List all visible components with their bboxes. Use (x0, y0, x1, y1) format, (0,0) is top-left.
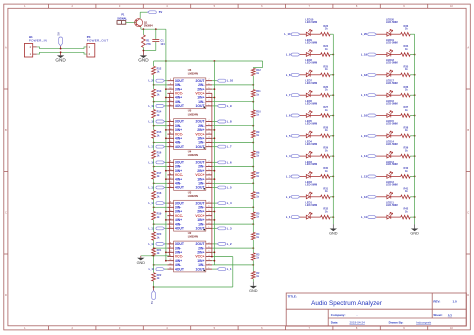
svg-text:2N3904: 2N3904 (144, 24, 153, 27)
svg-text:Audio Spectrum Analyzer: Audio Spectrum Analyzer (311, 300, 382, 307)
svg-text:5V: 5V (150, 301, 154, 304)
resistor R38 1k (401, 134, 411, 138)
svg-text:L_3: L_3 (286, 174, 291, 178)
node power ground junction (60, 51, 62, 53)
wire R32 to bus (330, 216, 333, 218)
svg-text:POWER_OUT: POWER_OUT (87, 38, 109, 42)
svg-text:L_19: L_19 (361, 53, 368, 57)
LED LED4 LED-5MM (306, 154, 310, 158)
node signal U4 2IN+ (214, 170, 216, 172)
net flag L_14 LED column (368, 155, 377, 158)
wire LED20 to R33 (391, 33, 401, 35)
wire U5 4IN- tap (154, 142, 168, 144)
net flag L_12 at U2 3OUT (156, 243, 165, 246)
wire LED15 to R38 (391, 135, 401, 137)
svg-text:D: D (5, 293, 7, 297)
svg-text:GND: GND (55, 58, 66, 63)
resistor R23 1k (321, 32, 331, 36)
svg-text:3: 3 (209, 259, 210, 261)
wire U2 2IN- to ref ladder (212, 247, 253, 249)
net flag L_11 LED column (368, 216, 377, 219)
wire U2 2IN+ signal (212, 251, 214, 253)
svg-text:L_5: L_5 (227, 186, 232, 190)
wire U5 3IN+ signal (166, 129, 168, 131)
wire bottom VCC connect (154, 286, 233, 288)
LED LED15 LED-5MM (387, 134, 391, 138)
net flag L_11 at U2 4OUT (156, 268, 165, 271)
svg-text:LED-5MM: LED-5MM (386, 142, 398, 146)
wire flag to LED14 (376, 155, 387, 157)
node LED bus junction (414, 155, 416, 157)
svg-text:5: 5 (209, 210, 210, 212)
wire U6 1OUT to flag (212, 105, 217, 107)
svg-text:2: 2 (209, 141, 210, 143)
node ladder tap U3 upper (153, 206, 155, 208)
node signal U3 2IN+ (214, 211, 216, 213)
svg-text:GND: GND (137, 261, 146, 265)
ground GND at ladder bottom left (141, 255, 170, 257)
svg-text:13: 13 (170, 263, 172, 265)
svg-text:L_5: L_5 (286, 134, 291, 138)
transistor Q1 2N3904 (135, 19, 143, 27)
net flag L_7 at U5 1OUT (217, 145, 226, 148)
svg-text:L_7: L_7 (286, 93, 291, 97)
wire U5 1IN+ signal (212, 137, 214, 139)
svg-text:9: 9 (170, 165, 171, 167)
wire U3 3IN- tap (154, 206, 168, 208)
net flag L_7 LED column (291, 94, 300, 97)
net flag L_6 at U4 2OUT (217, 161, 226, 164)
svg-text:8: 8 (170, 79, 171, 81)
wire U6 2IN+ signal (212, 88, 214, 90)
svg-text:7: 7 (209, 120, 210, 122)
svg-text:4: 4 (209, 133, 210, 135)
svg-text:4OUT: 4OUT (175, 104, 185, 108)
wire flag to LED16 (376, 115, 387, 117)
wire U5 2IN+ signal (212, 129, 214, 131)
wire U3 1OUT to flag (212, 227, 217, 229)
node LED bus junction (414, 216, 416, 218)
svg-text:U2: U2 (188, 231, 192, 235)
node ref ladder tap U4 lower (252, 182, 254, 184)
svg-text:Drawn By:: Drawn By: (389, 321, 404, 325)
resistor R28 1k (321, 134, 331, 138)
wire U2 2OUT to flag (212, 243, 217, 245)
svg-text:2: 2 (209, 263, 210, 265)
node signal U3 1IN+ (214, 219, 216, 221)
svg-text:LED-5MM: LED-5MM (305, 183, 317, 187)
resistor R14 1k (153, 102, 155, 110)
wire U6 2OUT to flag (212, 80, 217, 82)
node LED bus junction (414, 176, 416, 178)
svg-text:12: 12 (170, 259, 172, 261)
LED LED14 LED-5MM (387, 154, 391, 158)
svg-text:LED-5MM: LED-5MM (386, 61, 398, 65)
svg-text:L_12: L_12 (361, 195, 368, 199)
wire R30 to bus (330, 175, 333, 177)
svg-text:SIGNAL: SIGNAL (117, 16, 127, 20)
svg-text:GND: GND (249, 289, 258, 293)
svg-text:L_4: L_4 (227, 201, 232, 205)
node ladder tap U2 lower (153, 264, 155, 266)
svg-text:LED-5MM: LED-5MM (386, 40, 398, 44)
net flag L_2 at U2 2OUT (217, 243, 226, 246)
net flag L_13 LED column (368, 175, 377, 178)
node LED bus junction (332, 176, 334, 178)
wire U2 4IN+ signal (166, 260, 168, 262)
node LED bus junction (414, 74, 416, 76)
wire U5 2OUT to flag (212, 121, 217, 123)
net flag L_6 LED column (291, 114, 300, 117)
resistor R6 1k (ref ladder) (252, 179, 254, 192)
svg-text:1/1: 1/1 (448, 313, 453, 317)
node LED bus junction (414, 94, 416, 96)
wire R36 to bus (410, 94, 414, 96)
svg-text:Company:: Company: (331, 313, 346, 317)
node ref ladder tap U3 upper (252, 206, 254, 208)
node signal U2 4IN+ (165, 260, 167, 262)
wire U6 1IN- to ref ladder (212, 101, 253, 103)
wire U3 4IN+ signal (166, 219, 168, 221)
resistor R25 1k (321, 73, 331, 77)
wire U4 3IN+ signal (166, 170, 168, 172)
svg-text:L_6: L_6 (227, 160, 232, 164)
svg-text:L_9: L_9 (227, 104, 232, 108)
svg-text:TITLE:: TITLE: (288, 295, 297, 299)
node LED bus junction (332, 54, 334, 56)
net flag L_19 at U6 4OUT (156, 105, 165, 108)
svg-text:3: 3 (209, 96, 210, 98)
svg-text:14: 14 (170, 268, 172, 270)
svg-text:6: 6 (209, 83, 210, 85)
node LED bus junction (414, 196, 416, 198)
wire LED19 to R34 (391, 54, 401, 56)
wire U2 3IN- tap (154, 247, 168, 249)
svg-text:3: 3 (209, 218, 210, 220)
node LED bus junction (332, 216, 334, 218)
wire U4 2IN+ signal (212, 170, 214, 172)
svg-text:LM324N: LM324N (188, 112, 198, 116)
svg-text:D: D (467, 293, 469, 297)
net flag L_4 LED column (291, 155, 300, 158)
svg-text:27K: 27K (146, 42, 151, 46)
svg-text:U4: U4 (188, 150, 192, 154)
wire Q1 collector to 5V (139, 12, 141, 18)
wire R26 to bus (330, 94, 333, 96)
svg-text:7: 7 (209, 202, 210, 204)
net flag L_12 LED column (368, 195, 377, 198)
ground GND at LED column (411, 229, 418, 232)
node ladder tap U2 upper (153, 247, 155, 249)
wire U4 1IN- to ref ladder (212, 182, 253, 184)
svg-text:4: 4 (209, 255, 210, 257)
wire R38 to bus (410, 135, 414, 137)
net flag L_13 at U3 4OUT (156, 227, 165, 230)
wire R25 to bus (330, 74, 333, 76)
net flag L_19 LED column (368, 53, 377, 56)
svg-text:3: 3 (209, 178, 210, 180)
svg-text:4: 4 (209, 92, 210, 94)
svg-text:A: A (5, 46, 7, 50)
wire U3 2OUT to flag (212, 202, 217, 204)
wire LED3 to R30 (310, 175, 320, 177)
node LED bus junction (414, 135, 416, 137)
wire U5 4IN+ signal (166, 137, 168, 139)
svg-text:7: 7 (209, 242, 210, 244)
resistor R17 1k (153, 167, 155, 171)
svg-text:L_1: L_1 (286, 215, 291, 219)
node signal U4 3IN+ (165, 170, 167, 172)
connector H1 POWER_IN (24, 44, 32, 58)
resistor R32 1k (321, 215, 331, 219)
ground GND at power connector (60, 52, 62, 55)
resistor R9 1k (ref ladder) (252, 117, 254, 130)
capacitor C1 104 (155, 29, 157, 39)
svg-text:6: 6 (209, 124, 210, 126)
node LED bus junction (332, 74, 334, 76)
wire U3 2IN- to ref ladder (212, 206, 253, 208)
resistor R27 1k (321, 114, 331, 118)
svg-text:1: 1 (209, 227, 210, 229)
resistor R12 1k (153, 61, 155, 66)
node LED bus junction (414, 54, 416, 56)
net flag L_15 LED column (368, 134, 377, 137)
wire P1 to Q1 base (126, 21, 136, 23)
svg-text:Sheet:: Sheet: (433, 313, 442, 317)
node emitter-C1 junction (155, 28, 157, 30)
net flag L_4 at U3 2OUT (217, 202, 226, 205)
node signal bus top junction (165, 60, 167, 62)
svg-text:U6: U6 (188, 68, 192, 72)
net flag L_10 LED column (291, 33, 300, 36)
LED LED3 LED-5MM (306, 175, 310, 179)
LED LED7 LED-5MM (306, 93, 310, 97)
resistor R15 1k (153, 126, 155, 130)
node ladder bottom junction (153, 286, 155, 288)
node signal U5 3IN+ (165, 129, 167, 131)
svg-text:LED-5MM: LED-5MM (386, 81, 398, 85)
wire U6 1IN+ signal (212, 97, 214, 99)
wire R1-C1 bottom join (142, 47, 144, 50)
node ladder tap U5 lower (153, 142, 155, 144)
svg-text:L_13: L_13 (361, 174, 368, 178)
svg-text:LED-5MM: LED-5MM (386, 183, 398, 187)
net flag L_3 LED column (291, 175, 300, 178)
net flag L_15 at U4 4OUT (156, 186, 165, 189)
wire U2 1OUT to flag (212, 268, 217, 270)
svg-text:L_18: L_18 (361, 73, 368, 77)
node LED bus junction (332, 155, 334, 157)
node VCC+ bus bottom (211, 256, 213, 258)
svg-text:4OUT: 4OUT (175, 145, 185, 149)
wire power ground (37, 52, 87, 54)
wire U6 2IN- to ref ladder (212, 84, 253, 86)
node signal U2 1IN+ (214, 260, 216, 262)
LED LED6 LED-5MM (306, 114, 310, 118)
net flag L_16 LED column (368, 114, 377, 117)
wire flag to LED7 (300, 94, 306, 96)
svg-text:2019-04-24: 2019-04-24 (350, 321, 366, 325)
svg-text:6: 6 (209, 247, 210, 249)
wire LED2 to R31 (310, 196, 320, 198)
node ref ladder tap U3 lower (252, 223, 254, 225)
LED LED20 LED-5MM (387, 32, 391, 36)
wire U2 4IN- tap (154, 264, 168, 266)
svg-text:7: 7 (209, 161, 210, 163)
LED LED13 LED-5MM (387, 175, 391, 179)
wire U6 3IN- tap (154, 84, 168, 86)
wire flag to LED18 (376, 74, 387, 76)
svg-text:B: B (467, 128, 469, 132)
svg-text:GND: GND (410, 232, 419, 236)
node signal U5 2IN+ (214, 129, 216, 131)
net flag L_3 at U3 1OUT (217, 227, 226, 230)
svg-text:L_10: L_10 (227, 79, 234, 83)
svg-text:LM324N: LM324N (188, 153, 198, 157)
net flag L_18 at U5 3OUT (156, 120, 165, 123)
svg-text:8: 8 (170, 202, 171, 204)
wire U5 4OUT flag wire (165, 146, 168, 148)
svg-text:L_3: L_3 (227, 226, 232, 230)
wire flag to LED10 (300, 33, 306, 35)
wire LED18 to R35 (391, 74, 401, 76)
wire U6 4IN- tap (154, 101, 168, 103)
op-amp U3 LM324N (167, 190, 212, 231)
svg-text:7: 7 (209, 79, 210, 81)
svg-text:A: A (467, 46, 469, 50)
wire R29 to bus (330, 155, 333, 157)
title block (286, 293, 466, 326)
wire flag to LED13 (376, 175, 387, 177)
svg-text:L_17: L_17 (361, 93, 368, 97)
node ref ladder tap U6 upper (252, 84, 254, 86)
wire flag to LED17 (376, 94, 387, 96)
wire U4 2OUT to flag (212, 161, 217, 163)
wire U3 1IN+ signal (212, 219, 214, 221)
node LED bus junction (332, 94, 334, 96)
wire U4 1OUT to flag (212, 187, 217, 189)
wire U4 4IN- tap (154, 182, 168, 184)
svg-text:L_4: L_4 (286, 154, 291, 158)
wire R40 to bus (410, 175, 414, 177)
LED LED11 LED-5MM (387, 215, 391, 219)
LED LED17 LED-5MM (387, 93, 391, 97)
svg-text:C: C (467, 211, 469, 215)
svg-text:9: 9 (170, 247, 171, 249)
svg-text:Date:: Date: (331, 321, 339, 325)
svg-text:LED-5MM: LED-5MM (386, 101, 398, 105)
node ladder tap U6 upper (153, 84, 155, 86)
wire LED5 to R28 (310, 135, 320, 137)
LED LED5 LED-5MM (306, 134, 310, 138)
net flag L_8 LED column (291, 73, 300, 76)
wire flag to LED12 (376, 196, 387, 198)
wire LED9 to R24 (310, 54, 320, 56)
svg-text:U5: U5 (188, 109, 192, 113)
svg-text:1: 1 (209, 186, 210, 188)
resistor R12 1k (ref ladder) (252, 67, 254, 70)
svg-text:LED-5MM: LED-5MM (305, 20, 317, 24)
wire LED8 to R25 (310, 74, 320, 76)
svg-text:9: 9 (170, 206, 171, 208)
node ladder tap U6 lower (153, 101, 155, 103)
wire LED cathode bus (414, 34, 416, 224)
node ladder tap U5 upper (153, 125, 155, 127)
svg-text:4OUT: 4OUT (175, 227, 185, 231)
node ref ladder tap U5 lower (252, 142, 254, 144)
wire U5 3OUT flag wire (165, 121, 168, 123)
wire R24 to bus (330, 54, 333, 56)
svg-text:U3: U3 (188, 190, 192, 194)
node ladder tap U4 lower (153, 182, 155, 184)
net flag L_9 LED column (291, 53, 300, 56)
node signal U6 1IN+ (214, 97, 216, 99)
resistor R24 1k (321, 53, 331, 57)
wire flag to LED3 (300, 175, 306, 177)
svg-text:5: 5 (209, 169, 210, 171)
resistor R18 1k (153, 183, 155, 191)
wire LED4 to R29 (310, 155, 320, 157)
resistor R29 1k (321, 154, 331, 158)
node ref ladder tap U2 upper (252, 247, 254, 249)
wire U6 3OUT flag wire (165, 80, 168, 82)
svg-text:8: 8 (170, 120, 171, 122)
power flag 5V at Q1 collector (148, 11, 157, 14)
svg-text:B: B (5, 128, 7, 132)
connector P1 SIGNAL (117, 21, 126, 25)
resistor R21 1k (153, 247, 155, 249)
wire Q1 emitter (140, 27, 142, 29)
svg-text:LED-5MM: LED-5MM (305, 81, 317, 85)
ground GND at LED column (330, 229, 337, 232)
svg-text:5: 5 (209, 128, 210, 130)
power flag 5V bottom (153, 287, 155, 291)
svg-text:L_8: L_8 (227, 120, 232, 124)
wire LED12 to R41 (391, 196, 401, 198)
svg-text:4OUT: 4OUT (175, 267, 185, 271)
resistor R11 1k (ref ladder) (252, 76, 254, 90)
svg-text:L_8: L_8 (286, 73, 291, 77)
wire U3 4IN- tap (154, 223, 168, 225)
resistor R3 1k (ref ladder) (252, 240, 254, 253)
node signal U2 2IN+ (214, 251, 216, 253)
node emitter-R1 junction (143, 28, 145, 30)
wire U3 3OUT flag wire (165, 202, 168, 204)
svg-text:5V: 5V (159, 10, 163, 14)
wire LED1 to R32 (310, 216, 320, 218)
LED LED9 LED-5MM (306, 53, 310, 57)
wire U3 4OUT flag wire (165, 227, 168, 229)
wire LED16 to R37 (391, 115, 401, 117)
wire flag to LED5 (300, 135, 306, 137)
wire U2 4OUT flag wire (165, 268, 168, 270)
node LED bus junction (414, 115, 416, 117)
svg-text:9: 9 (170, 124, 171, 126)
svg-text:1: 1 (209, 104, 210, 106)
wire LED10 to R23 (310, 33, 320, 35)
LED LED16 LED-5MM (387, 114, 391, 118)
net flag L_17 at U5 4OUT (156, 145, 165, 148)
LED LED18 LED-5MM (387, 73, 391, 77)
svg-text:L_10: L_10 (284, 32, 291, 36)
svg-text:8: 8 (170, 242, 171, 244)
node LED bus junction (332, 135, 334, 137)
svg-text:LM324N: LM324N (188, 72, 198, 76)
resistor R20 1k (153, 224, 155, 232)
wire flag to LED20 (376, 33, 387, 35)
svg-text:L_7: L_7 (227, 145, 232, 149)
resistor R39 1k (401, 154, 411, 158)
